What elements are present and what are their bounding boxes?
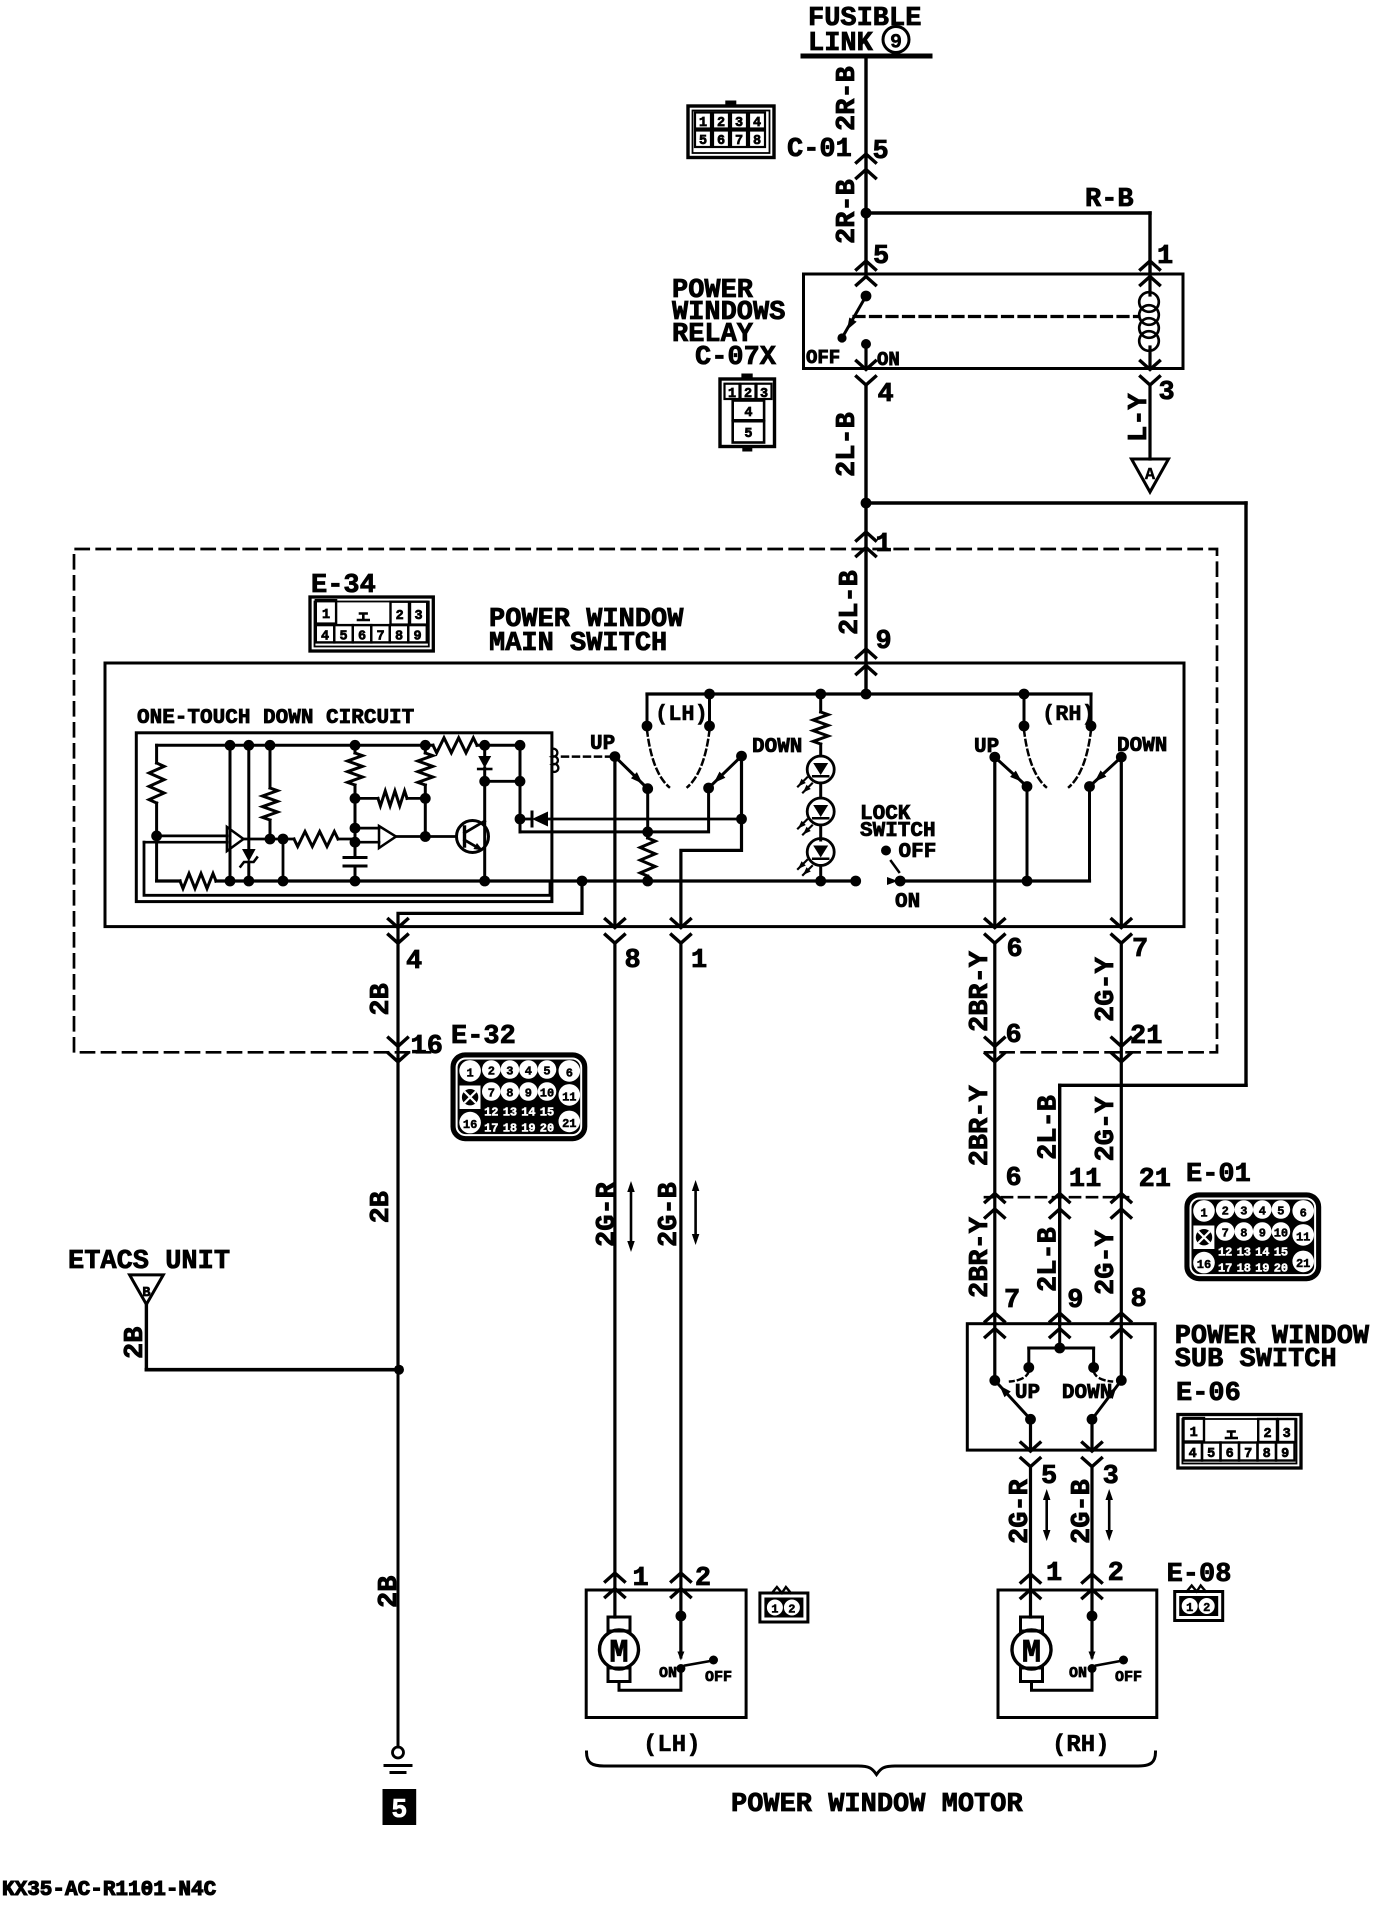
svg-text:DOWN: DOWN [752,736,802,759]
svg-text:4: 4 [1189,1447,1197,1462]
svg-text:(LH): (LH) [655,702,708,727]
svg-text:16: 16 [411,1032,443,1062]
svg-text:8: 8 [1131,1285,1147,1315]
svg-text:18: 18 [1237,1262,1251,1276]
svg-text:ON: ON [1069,1665,1087,1682]
svg-text:2G-R: 2G-R [593,1181,623,1247]
svg-text:11: 11 [1296,1230,1310,1244]
svg-text:6: 6 [566,1066,573,1080]
svg-text:8: 8 [395,630,403,645]
svg-text:1: 1 [1186,1601,1193,1615]
svg-text:ON: ON [877,349,900,371]
svg-text:ON: ON [659,1665,677,1682]
svg-text:17: 17 [1218,1262,1232,1276]
svg-text:7: 7 [735,134,743,149]
svg-text:2R-B: 2R-B [833,179,863,244]
svg-text:21: 21 [562,1117,576,1131]
svg-text:5: 5 [1041,1462,1057,1492]
svg-text:21: 21 [1296,1257,1310,1271]
svg-text:2BR-Y: 2BR-Y [966,1216,996,1298]
svg-text:OFF: OFF [806,347,840,369]
svg-text:6: 6 [1006,1021,1022,1051]
svg-text:E-06: E-06 [1176,1379,1241,1409]
svg-text:9: 9 [1281,1447,1289,1462]
svg-text:C-01: C-01 [787,135,852,165]
svg-text:18: 18 [503,1122,517,1136]
svg-text:10: 10 [1274,1227,1288,1241]
svg-text:8: 8 [1240,1227,1247,1241]
svg-text:2: 2 [788,1603,795,1617]
svg-text:11: 11 [1069,1165,1101,1195]
svg-text:19: 19 [521,1122,535,1136]
svg-text:21: 21 [1130,1022,1162,1052]
svg-text:KX35-AC-R1101-N4C: KX35-AC-R1101-N4C [2,1879,217,1902]
svg-text:7: 7 [1222,1227,1229,1241]
svg-text:ETACS UNIT: ETACS UNIT [68,1247,230,1277]
svg-text:4: 4 [1259,1205,1266,1219]
svg-text:A: A [1145,466,1156,485]
svg-text:(LH): (LH) [643,1732,701,1759]
svg-text:9: 9 [1259,1227,1266,1241]
svg-text:(RH): (RH) [1042,702,1095,727]
svg-text:8: 8 [1263,1447,1271,1462]
svg-text:1: 1 [876,530,892,560]
svg-text:3: 3 [1159,378,1175,408]
svg-text:2G-Y: 2G-Y [1092,1229,1122,1295]
svg-text:1: 1 [466,1066,473,1080]
svg-text:2: 2 [1203,1601,1210,1615]
svg-text:6: 6 [1006,1164,1022,1194]
svg-text:10: 10 [540,1087,554,1101]
svg-text:POWER WINDOW MOTOR: POWER WINDOW MOTOR [731,1790,1023,1820]
svg-text:2G-R: 2G-R [1006,1478,1036,1544]
svg-text:7: 7 [1244,1447,1252,1462]
svg-text:5: 5 [391,1796,407,1826]
svg-text:16: 16 [1197,1258,1211,1272]
svg-text:2: 2 [717,116,725,131]
svg-text:7: 7 [1004,1286,1020,1316]
svg-text:4: 4 [878,380,894,410]
svg-text:1: 1 [322,608,330,623]
svg-text:OFF: OFF [899,841,937,864]
svg-text:3: 3 [415,609,423,624]
svg-text:2: 2 [396,609,404,624]
svg-text:M: M [609,1635,628,1672]
svg-text:5: 5 [1277,1205,1284,1219]
svg-text:4: 4 [744,406,752,421]
svg-text:R-B: R-B [1085,185,1134,215]
svg-text:1: 1 [1200,1206,1207,1220]
svg-text:2B: 2B [367,1191,397,1223]
svg-text:4: 4 [525,1065,532,1079]
svg-text:1: 1 [1046,1559,1062,1589]
svg-text:OFF: OFF [1115,1669,1142,1686]
svg-text:13: 13 [1237,1246,1251,1260]
svg-text:5: 5 [873,242,889,272]
svg-text:3: 3 [1103,1462,1119,1492]
svg-text:7: 7 [1132,935,1148,965]
svg-text:5: 5 [339,630,347,645]
svg-text:12: 12 [484,1106,498,1120]
svg-text:SUB SWITCH: SUB SWITCH [1175,1345,1337,1375]
svg-text:2: 2 [488,1065,495,1079]
svg-text:1: 1 [771,1603,778,1617]
svg-text:3: 3 [506,1065,513,1079]
svg-text:1: 1 [1190,1426,1198,1441]
svg-text:6: 6 [1300,1206,1307,1220]
svg-text:5: 5 [543,1065,550,1079]
svg-text:2BR-Y: 2BR-Y [966,1084,996,1166]
svg-text:9: 9 [876,627,892,657]
svg-text:8: 8 [506,1087,513,1101]
svg-text:2L-B: 2L-B [1035,1227,1065,1292]
svg-text:4: 4 [753,116,761,131]
svg-text:9: 9 [1067,1286,1083,1316]
svg-text:2B: 2B [367,983,397,1015]
svg-text:6: 6 [358,630,366,645]
svg-text:7: 7 [488,1087,495,1101]
svg-text:8: 8 [625,946,641,976]
svg-text:1: 1 [691,946,707,976]
svg-text:SWITCH: SWITCH [860,820,936,843]
svg-text:2G-Y: 2G-Y [1092,1096,1122,1162]
svg-text:OFF: OFF [705,1669,732,1686]
svg-text:1: 1 [699,116,707,131]
svg-text:2B: 2B [375,1576,405,1608]
svg-text:2BR-Y: 2BR-Y [966,950,996,1032]
svg-text:2L-B: 2L-B [836,570,866,635]
svg-text:6: 6 [717,134,725,149]
svg-text:3: 3 [735,116,743,131]
svg-text:MAIN SWITCH: MAIN SWITCH [489,629,667,659]
svg-text:4: 4 [406,947,422,977]
svg-text:E-08: E-08 [1167,1560,1232,1590]
svg-text:14: 14 [521,1106,535,1120]
svg-text:E-32: E-32 [451,1022,516,1052]
svg-text:3: 3 [1240,1205,1247,1219]
svg-text:M: M [1022,1635,1041,1672]
svg-text:2: 2 [1222,1205,1229,1219]
svg-text:13: 13 [503,1106,517,1120]
svg-text:2G-B: 2G-B [1068,1479,1098,1544]
svg-text:2L-B: 2L-B [1035,1095,1065,1160]
svg-text:3: 3 [1283,1427,1291,1442]
svg-text:6: 6 [1226,1447,1234,1462]
svg-text:1: 1 [1157,242,1173,272]
svg-text:ON: ON [895,891,920,914]
svg-text:2G-Y: 2G-Y [1092,956,1122,1022]
svg-text:2R-B: 2R-B [833,66,863,131]
svg-text:8: 8 [753,134,761,149]
svg-text:17: 17 [484,1122,498,1136]
svg-text:12: 12 [1218,1246,1232,1260]
svg-text:21: 21 [1139,1165,1171,1195]
svg-text:9: 9 [890,32,902,55]
svg-text:5: 5 [873,137,889,167]
svg-text:2: 2 [1264,1427,1272,1442]
svg-text:20: 20 [1274,1262,1288,1276]
svg-text:6: 6 [1007,935,1023,965]
svg-text:ONE-TOUCH DOWN CIRCUIT: ONE-TOUCH DOWN CIRCUIT [137,707,414,730]
svg-text:(RH): (RH) [1052,1732,1110,1759]
svg-text:7: 7 [376,630,384,645]
svg-text:5: 5 [699,134,707,149]
svg-text:16: 16 [463,1118,477,1132]
svg-text:4: 4 [321,630,329,645]
svg-text:19: 19 [1255,1262,1269,1276]
svg-text:15: 15 [540,1106,554,1120]
svg-text:9: 9 [525,1087,532,1101]
svg-text:15: 15 [1274,1246,1288,1260]
svg-text:2B: 2B [121,1327,151,1359]
svg-text:9: 9 [413,630,421,645]
svg-text:14: 14 [1255,1246,1269,1260]
svg-text:B: B [142,1286,150,1301]
svg-text:5: 5 [744,427,752,442]
svg-text:C-07X: C-07X [695,343,777,373]
svg-text:5: 5 [1207,1447,1215,1462]
svg-text:2L-B: 2L-B [833,412,863,477]
svg-text:20: 20 [540,1122,554,1136]
svg-text:2: 2 [1108,1559,1124,1589]
svg-text:2G-B: 2G-B [655,1182,685,1247]
svg-text:UP: UP [1015,1382,1040,1405]
svg-text:11: 11 [562,1090,576,1104]
svg-text:E-01: E-01 [1186,1160,1251,1190]
